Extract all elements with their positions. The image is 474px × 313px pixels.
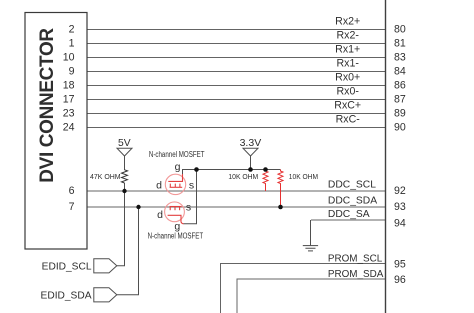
svg-text:Rx2-: Rx2- xyxy=(337,29,360,41)
svg-text:N-channel MOSFET: N-channel MOSFET xyxy=(148,231,204,240)
svg-text:9: 9 xyxy=(69,66,75,78)
svg-text:6: 6 xyxy=(69,185,75,197)
svg-text:Rx0+: Rx0+ xyxy=(335,71,360,83)
svg-text:92: 92 xyxy=(394,185,406,197)
svg-text:DDC_SA: DDC_SA xyxy=(328,209,370,220)
svg-text:s: s xyxy=(189,179,194,191)
svg-text:17: 17 xyxy=(63,94,75,106)
svg-text:DDC_SCL: DDC_SCL xyxy=(328,180,376,191)
svg-text:10K OHM: 10K OHM xyxy=(289,172,318,181)
svg-text:10: 10 xyxy=(63,52,75,64)
svg-text:2: 2 xyxy=(69,24,75,36)
svg-text:93: 93 xyxy=(394,201,406,213)
svg-text:RxC-: RxC- xyxy=(336,113,361,125)
svg-text:1: 1 xyxy=(69,38,75,50)
svg-text:s: s xyxy=(186,202,191,214)
svg-text:95: 95 xyxy=(394,259,406,271)
svg-text:81: 81 xyxy=(394,37,406,49)
svg-text:83: 83 xyxy=(394,51,406,63)
svg-text:Rx0-: Rx0- xyxy=(337,85,360,97)
svg-text:86: 86 xyxy=(394,79,406,91)
svg-text:5V: 5V xyxy=(118,138,131,149)
svg-text:Rx1+: Rx1+ xyxy=(335,43,360,55)
svg-text:24: 24 xyxy=(63,122,75,134)
svg-text:96: 96 xyxy=(394,274,406,286)
svg-text:d: d xyxy=(156,180,162,192)
svg-text:g: g xyxy=(174,220,180,232)
svg-text:94: 94 xyxy=(394,217,406,229)
svg-text:Rx2+: Rx2+ xyxy=(335,15,360,27)
svg-text:80: 80 xyxy=(394,23,406,35)
svg-text:RxC+: RxC+ xyxy=(334,99,361,111)
svg-text:EDID_SCL: EDID_SCL xyxy=(42,262,92,273)
svg-text:g: g xyxy=(175,161,181,173)
svg-text:d: d xyxy=(157,209,163,221)
svg-text:7: 7 xyxy=(69,201,75,213)
svg-text:N-channel MOSFET: N-channel MOSFET xyxy=(149,150,205,159)
svg-text:89: 89 xyxy=(394,107,406,119)
svg-text:23: 23 xyxy=(63,108,75,120)
svg-text:84: 84 xyxy=(394,65,406,77)
svg-text:PROM_SDA: PROM_SDA xyxy=(328,269,384,280)
svg-text:DVI CONNECTOR: DVI CONNECTOR xyxy=(37,28,58,183)
svg-text:10K OHM: 10K OHM xyxy=(228,172,258,181)
svg-text:Rx1-: Rx1- xyxy=(337,57,360,69)
svg-text:87: 87 xyxy=(394,93,406,105)
svg-text:3.3V: 3.3V xyxy=(240,137,262,149)
svg-text:90: 90 xyxy=(394,121,406,133)
svg-text:EDID_SDA: EDID_SDA xyxy=(41,291,92,302)
svg-text:47K OHM: 47K OHM xyxy=(90,172,121,181)
svg-text:18: 18 xyxy=(63,80,75,92)
svg-text:DDC_SDA: DDC_SDA xyxy=(328,196,377,207)
svg-text:PROM_SCL: PROM_SCL xyxy=(328,253,383,264)
